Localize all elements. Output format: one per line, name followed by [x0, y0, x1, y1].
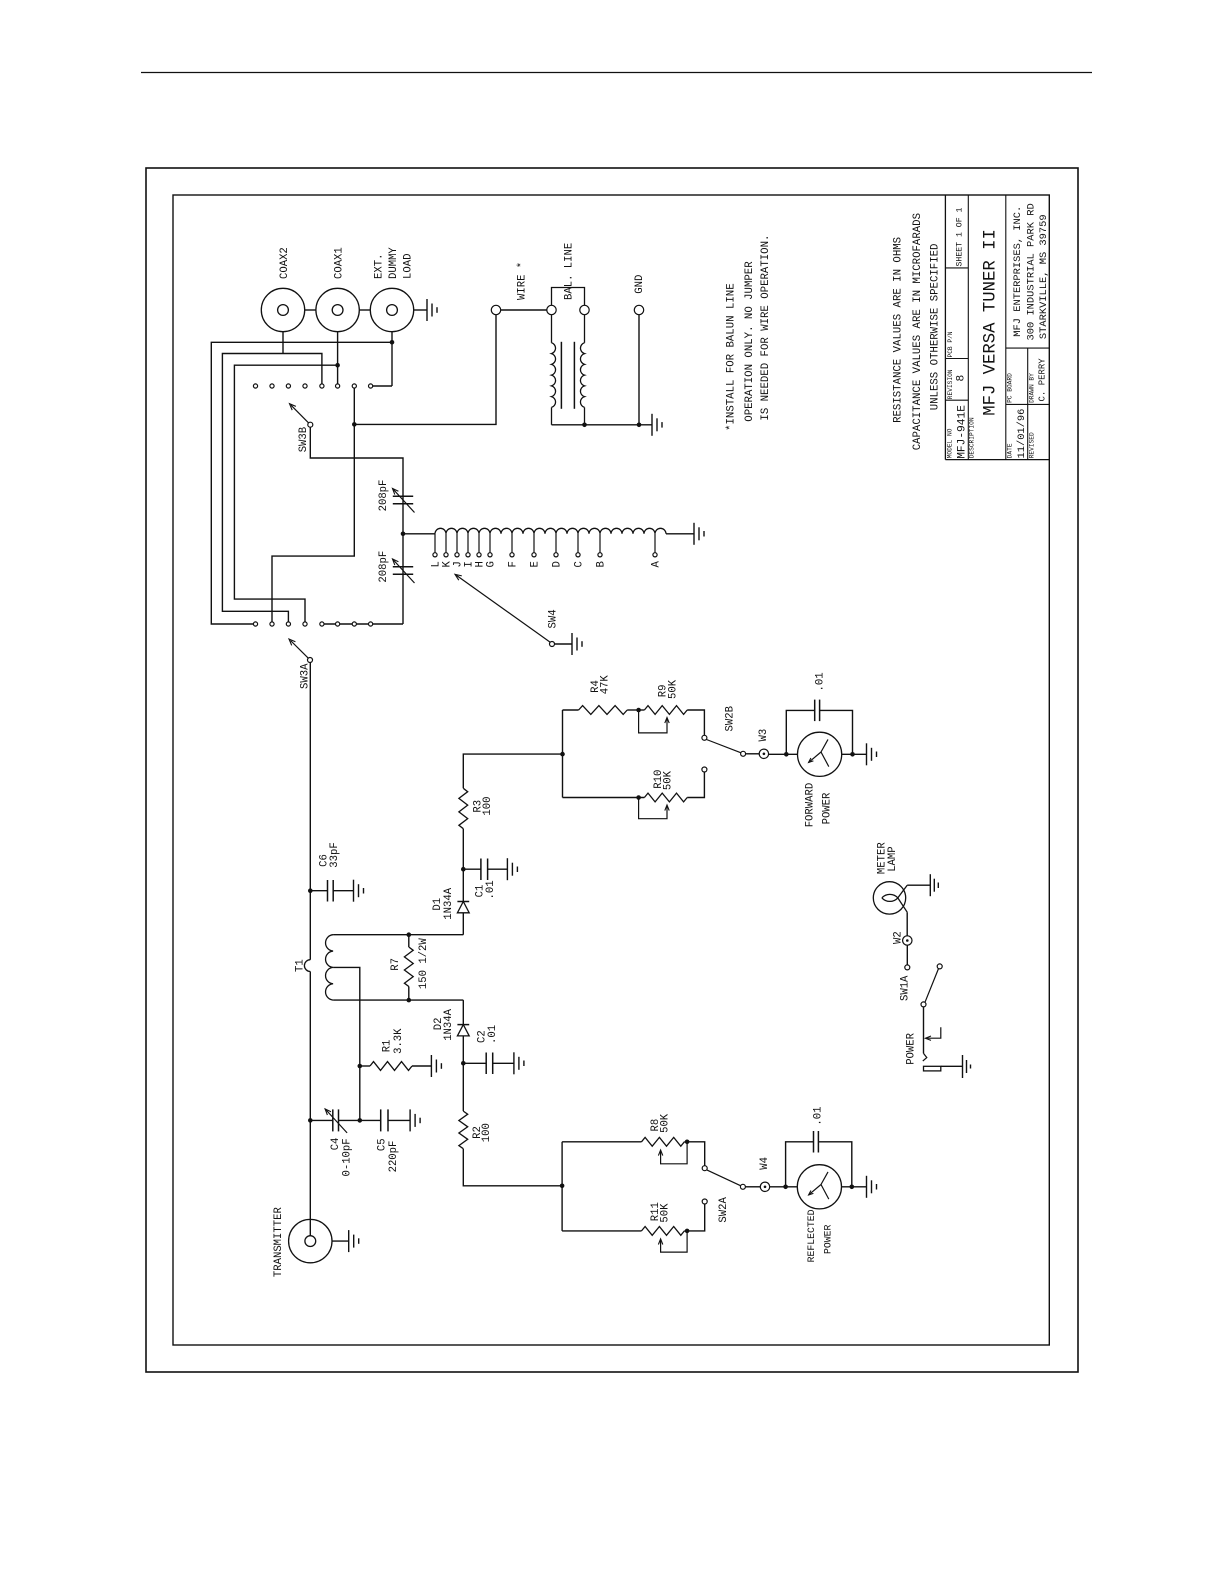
svg-text:RESISTANCE VALUES ARE IN OHMS: RESISTANCE VALUES ARE IN OHMS — [893, 237, 905, 423]
svg-text:1N34A: 1N34A — [443, 1008, 455, 1040]
ground at forward meter — [866, 743, 868, 765]
svg-text:8: 8 — [956, 375, 968, 382]
inductor L1 tapped coil — [435, 528, 666, 534]
svg-text:A: A — [650, 561, 662, 568]
svg-text:100: 100 — [482, 797, 494, 816]
resistor R2 100 — [462, 1063, 464, 1111]
svg-text:.01: .01 — [815, 672, 827, 691]
switch SW4 wiper — [550, 642, 555, 647]
svg-text:50K: 50K — [663, 770, 675, 790]
switch SW2A contact bottom — [702, 1199, 707, 1204]
transformer balun core — [560, 342, 562, 409]
switch SW3B wiper — [308, 422, 313, 427]
svg-text:208pF: 208pF — [378, 480, 390, 512]
node refl cap left junction — [783, 1185, 788, 1190]
ground at POWER switch — [962, 1055, 964, 1078]
switch SW2A wiper — [707, 1170, 741, 1186]
node balun-GND junction — [582, 423, 587, 428]
potentiometer R9 50K — [644, 706, 687, 715]
capacitor C6 33pF — [310, 890, 327, 892]
terminal W2 — [903, 936, 912, 945]
node contact7-WIRE junction — [352, 422, 357, 427]
switch SW2B contact bottom — [702, 767, 707, 772]
svg-text:REVISION: REVISION — [947, 369, 954, 399]
wire lamp to ground — [907, 884, 930, 886]
capacitor .01 across reflected meter — [786, 1142, 814, 1187]
switch SW2B contact top — [702, 735, 707, 740]
svg-text:POWER: POWER — [905, 1032, 917, 1064]
wire balun bottom rail to ground — [552, 424, 653, 426]
wire EXT to ground — [414, 309, 427, 311]
wire COAX2-COAX1 — [305, 309, 316, 311]
node C4 junction on main line — [308, 1118, 313, 1123]
svg-text:47K: 47K — [599, 675, 611, 695]
connector COAX2 — [261, 288, 304, 331]
node C4/C5 junction — [358, 1118, 363, 1123]
svg-text:B: B — [595, 561, 607, 567]
capacitor C1 .01 — [463, 868, 481, 870]
connector TRANSMITTER — [289, 1219, 332, 1262]
wire COAX1-EXT — [359, 309, 370, 311]
title block col3 dividers — [1006, 347, 1050, 349]
svg-text:EXT.: EXT. — [373, 254, 385, 279]
svg-text:SW3A: SW3A — [299, 663, 311, 689]
svg-text:PC BOARD: PC BOARD — [1007, 373, 1014, 403]
switch POWER actuator arrow — [927, 1027, 941, 1038]
wire contact8 to EXT column — [373, 385, 392, 387]
svg-text:.01: .01 — [485, 880, 497, 899]
svg-text:50K: 50K — [659, 1203, 671, 1223]
svg-text:CAPACITANCE VALUES ARE IN MICR: CAPACITANCE VALUES ARE IN MICROFARADS — [912, 213, 924, 450]
wire GND terminal down — [638, 315, 640, 425]
potentiometer R11 50K — [562, 1230, 641, 1232]
ground at reflected meter — [866, 1176, 868, 1198]
node cap-inductor junction — [401, 532, 406, 537]
terminal W4 — [760, 1182, 769, 1191]
terminal BAL LINE left — [547, 305, 556, 314]
ground at SW4 — [571, 633, 573, 655]
wire junction to WIRE terminal — [354, 315, 496, 425]
wire contact7 down to WIRE net and SW3A contact2 — [272, 389, 354, 623]
wire SW4 to ground — [555, 643, 573, 645]
terminal BAL LINE right — [580, 305, 589, 314]
wire refl bridge left rail — [561, 1142, 563, 1231]
svg-text:C: C — [573, 561, 585, 567]
ground at C6 — [353, 880, 355, 902]
wire TRANSMITTER to ground — [332, 1240, 349, 1242]
wire inductor to ground — [666, 533, 694, 535]
terminal W3 — [759, 749, 768, 758]
switch SW2A contact top — [702, 1166, 707, 1171]
title block divider col1-col2 — [967, 195, 969, 460]
svg-text:C. PERRY: C. PERRY — [1038, 358, 1048, 402]
ground at C5 — [409, 1109, 411, 1131]
node fwd cap right junction — [850, 752, 855, 757]
terminal GND — [634, 305, 643, 314]
svg-text:R1: R1 — [381, 1040, 393, 1053]
svg-text:MFJ-941E: MFJ-941E — [957, 405, 969, 459]
wire bus1 EXT to SW3A contact1 — [211, 342, 392, 624]
node C6 junction on main line — [308, 888, 313, 893]
diode D2 1N34A — [462, 1000, 464, 1025]
wire SW3B pivot to cap 208pF top — [310, 427, 403, 534]
node refl cap right junction — [850, 1185, 855, 1190]
capacitor 208pF (bottom, variable) — [393, 566, 413, 568]
svg-text:DESCRIPTION: DESCRIPTION — [969, 417, 976, 458]
wire POWER to ground — [941, 1065, 963, 1067]
svg-text:MODEL NO: MODEL NO — [947, 428, 954, 458]
capacitor C5 220pF — [360, 1119, 381, 1121]
wire T1 secondary top rail — [333, 934, 463, 936]
ground at EXT DUMMY LOAD — [426, 299, 428, 321]
wire reflected meter to ground — [842, 1186, 867, 1188]
svg-text:SW3B: SW3B — [298, 427, 310, 452]
node C2 junction — [461, 1061, 466, 1066]
svg-text:TRANSMITTER: TRANSMITTER — [273, 1207, 285, 1278]
svg-text:SHEET 1 OF 1: SHEET 1 OF 1 — [956, 207, 965, 266]
svg-text:OPERATION ONLY. NO JUMPER: OPERATION ONLY. NO JUMPER — [744, 261, 756, 422]
wire SW1A pivot down to POWER switch — [923, 1007, 925, 1054]
svg-text:MFJ ENTERPRISES, INC.: MFJ ENTERPRISES, INC. — [1012, 206, 1024, 337]
ground at C2 — [513, 1052, 515, 1074]
transformer balun right winding — [584, 315, 586, 343]
resistor R4 47K — [563, 709, 579, 711]
wire SW2A pivot to W4 — [745, 1186, 760, 1188]
svg-text:150 1/2W: 150 1/2W — [418, 938, 430, 990]
switch SW1A wiper — [925, 969, 939, 1003]
svg-text:REFLECTED: REFLECTED — [806, 1209, 817, 1262]
node fwd cap left junction — [784, 752, 789, 757]
svg-text:1N34A: 1N34A — [443, 887, 455, 919]
wire main line transmitter to SW3A — [309, 972, 311, 1236]
svg-text:SW4: SW4 — [547, 609, 559, 628]
node EXT-bus1 junction — [390, 340, 395, 345]
svg-text:LOAD: LOAD — [403, 254, 415, 279]
capacitor 208pF (top, variable) — [393, 495, 413, 497]
svg-text:SW1A: SW1A — [900, 975, 912, 1001]
potentiometer R10 50K — [563, 797, 645, 799]
svg-text:33pF: 33pF — [329, 842, 341, 867]
connector EXT. DUMMY LOAD — [370, 288, 413, 331]
wire COAX1 down to SW3B contact6 — [337, 332, 339, 384]
title block divider col2-col3 — [1005, 195, 1007, 460]
resistor R7 — [407, 932, 412, 937]
svg-text:D: D — [551, 561, 563, 567]
transformer T1 secondary winding — [326, 935, 334, 1000]
switch SW3A wiper — [308, 658, 313, 663]
transformer balun left winding — [551, 315, 553, 343]
wire T1 secondary bottom rail — [333, 999, 463, 1001]
svg-text:W2: W2 — [892, 931, 904, 944]
svg-text:PCB P/N: PCB P/N — [947, 331, 954, 357]
lamp METER LAMP — [873, 882, 905, 914]
inductor taps — [434, 534, 436, 553]
svg-text:POWER: POWER — [822, 1224, 833, 1254]
svg-text:300 INDUSTRIAL PARK RD: 300 INDUSTRIAL PARK RD — [1026, 203, 1038, 340]
meter REFLECTED POWER — [797, 1165, 841, 1209]
wire SW3A contacts 5-8 strap — [322, 623, 403, 625]
ground at TRANSMITTER — [348, 1230, 350, 1252]
svg-text:COAX2: COAX2 — [279, 247, 291, 279]
svg-text:E: E — [529, 561, 541, 567]
svg-text:DUMMY: DUMMY — [388, 247, 400, 279]
title block outline — [944, 195, 946, 460]
svg-text:11/01/96: 11/01/96 — [1016, 409, 1028, 459]
connector COAX1 — [316, 288, 359, 331]
svg-text:R7: R7 — [390, 958, 402, 971]
svg-text:REVISED: REVISED — [1029, 432, 1036, 458]
node fwd bridge junction — [560, 752, 565, 757]
svg-text:POWER: POWER — [822, 792, 834, 824]
svg-text:W3: W3 — [758, 729, 770, 742]
ground at C1 — [506, 858, 508, 880]
ground at lamp — [929, 874, 931, 896]
svg-text:FORWARD: FORWARD — [805, 783, 817, 828]
wire W3 to forward meter — [769, 753, 798, 755]
title block col1 dividers — [945, 399, 968, 401]
svg-text:0-10pF: 0-10pF — [341, 1138, 353, 1176]
wire SW2B pivot to W3 — [746, 753, 760, 755]
capacitor C4 0-10pF (variable) — [310, 1119, 333, 1121]
wire bus2 COAX2 to SW3B contact5 and SW3A contact3 — [222, 354, 322, 623]
node R4-R9 junction — [636, 708, 641, 713]
switch POWER contact chevron — [923, 1053, 927, 1061]
wire jumper bracket over BAL LINE terminals — [552, 288, 585, 306]
capacitor .01 across forward meter — [786, 710, 814, 754]
diode D1 1N34A — [462, 913, 464, 935]
switch SW2B wiper — [707, 740, 742, 753]
svg-text:GND: GND — [634, 275, 646, 294]
node refl bridge junction — [560, 1184, 565, 1189]
svg-text:C4: C4 — [330, 1138, 342, 1151]
svg-text:W4: W4 — [759, 1157, 771, 1170]
node bus3-COAX1 junction — [335, 363, 340, 368]
svg-text:STARKVILLE, MS 39759: STARKVILLE, MS 39759 — [1038, 214, 1050, 339]
svg-text:UNLESS OTHERWISE SPECIFIED: UNLESS OTHERWISE SPECIFIED — [929, 244, 941, 411]
switch POWER slide body — [924, 1066, 941, 1071]
svg-text:208pF: 208pF — [378, 551, 390, 583]
switch SW1A contact left — [905, 965, 910, 970]
outer border frame — [146, 168, 1078, 1372]
page top rule — [141, 72, 1092, 74]
wire junction to inductor — [403, 533, 435, 535]
node C1 junction — [461, 867, 466, 872]
ground at R1 — [430, 1055, 432, 1077]
svg-text:.01: .01 — [812, 1107, 824, 1126]
svg-text:T1: T1 — [295, 959, 307, 972]
wire W4 to reflected meter — [770, 1186, 798, 1188]
svg-text:SW2B: SW2B — [725, 706, 737, 731]
resistor R1 3.3K — [360, 1065, 370, 1067]
svg-text:LAMP: LAMP — [887, 846, 899, 871]
ground at balun rail — [651, 414, 653, 436]
switch SW3B contacts row — [253, 384, 257, 388]
terminal WIRE* — [491, 305, 500, 314]
svg-text:F: F — [507, 561, 519, 567]
svg-text:DRAWN BY: DRAWN BY — [1029, 373, 1036, 403]
svg-text:MFJ VERSA TUNER II: MFJ VERSA TUNER II — [981, 229, 1000, 416]
wire forward meter to ground — [842, 753, 867, 755]
potentiometer R8 50K — [562, 1141, 641, 1143]
wire fwd bridge left rail — [562, 710, 564, 798]
switch SW3A contacts row — [253, 622, 257, 626]
wire WIRE to BAL terminal — [501, 309, 547, 311]
meter FORWARD POWER — [798, 732, 842, 776]
wire COAX2 stub down — [282, 332, 284, 354]
svg-text:50K: 50K — [659, 1113, 671, 1133]
svg-text:.01: .01 — [487, 1025, 499, 1044]
svg-text:IS NEEDED FOR WIRE OPERATION.: IS NEEDED FOR WIRE OPERATION. — [760, 235, 772, 421]
switch SW1A contact right — [937, 964, 942, 969]
svg-text:DATE: DATE — [1007, 443, 1014, 458]
capacitor C2 .01 — [463, 1062, 486, 1064]
wire bus3 to SW3A contact4 — [234, 365, 337, 622]
svg-text:BAL. LINE: BAL. LINE — [563, 243, 575, 300]
wire W2 to SW1A contact — [906, 945, 908, 965]
wire between 208pF caps — [402, 534, 404, 624]
wire EXT stub down — [391, 332, 393, 386]
wire lamp to W2 — [906, 912, 908, 936]
svg-text:*INSTALL FOR BALUN LINE: *INSTALL FOR BALUN LINE — [726, 283, 738, 431]
svg-text:COAX1: COAX1 — [333, 247, 345, 279]
svg-text:220pF: 220pF — [388, 1141, 400, 1173]
svg-text:G: G — [485, 561, 497, 567]
ground at inductor end — [693, 523, 695, 545]
resistor R3 100 — [462, 829, 464, 870]
wire T1 center tap down to C4/C5 node — [333, 967, 360, 1120]
transformer T1 primary bump — [304, 960, 310, 972]
svg-text:WIRE *: WIRE * — [516, 262, 528, 300]
inner drawing frame — [173, 195, 1049, 1345]
node R1 junction on tap line — [358, 1064, 363, 1069]
svg-text:C5: C5 — [377, 1138, 389, 1151]
svg-text:100: 100 — [481, 1123, 493, 1142]
svg-text:50K: 50K — [667, 679, 679, 699]
svg-text:3.3K: 3.3K — [393, 1028, 405, 1054]
svg-text:SW2A: SW2A — [718, 1197, 730, 1223]
